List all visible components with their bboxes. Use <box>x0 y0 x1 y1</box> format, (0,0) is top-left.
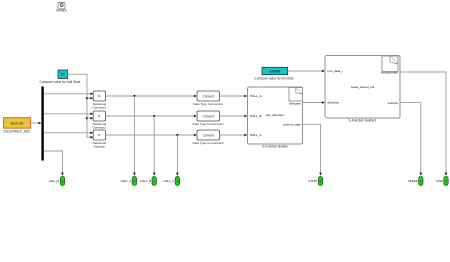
svg-text:velocity: velocity <box>388 101 399 105</box>
svg-text:Compare value for Hall State: Compare value for Hall State <box>40 80 81 84</box>
data type conversion1 block (middle) <box>193 111 225 126</box>
S-Function Builder1 (speed measurement) <box>325 56 400 123</box>
wire Data Type Conversion2 to S-Fcn HALL_C <box>220 134 248 137</box>
svg-text:Data Type Conversion: Data Type Conversion <box>193 102 223 106</box>
junction + branch down to HALL_B outport <box>153 115 156 176</box>
wire Data Type Conversion to S-Fcn HALL_A <box>220 95 248 98</box>
svg-text:min_data_i: min_data_i <box>328 69 343 73</box>
svg-text:0.0008: 0.0008 <box>269 70 280 74</box>
svg-text:current_state: current_state <box>283 123 301 127</box>
wire direction to S-Function Builder1 <box>303 101 325 104</box>
outport ADC_IN <box>49 177 65 186</box>
wire demux out1 to Relational Operator3 <box>44 93 93 96</box>
wire current_state down to START outport <box>303 124 322 175</box>
wire mesurement down to outport 7 <box>400 72 447 176</box>
S-Function Builder (get_direction) <box>248 87 303 148</box>
svg-text:S-Function Builder1: S-Function Builder1 <box>349 118 377 122</box>
svg-text:direction: direction <box>289 102 301 106</box>
outport SPEED <box>408 177 423 186</box>
demux (black bar) <box>41 87 43 161</box>
junction + stub to Relational Operator2 input 2 <box>86 117 93 120</box>
svg-text:Data Type Conversion2: Data Type Conversion2 <box>193 141 225 145</box>
outport HALL_A <box>121 177 137 186</box>
wire RO2 out to Data Type Conversion1 <box>106 115 197 118</box>
svg-text:HALL_C: HALL_C <box>163 179 174 183</box>
svg-text:S-Function Builder: S-Function Builder <box>262 144 289 148</box>
wire demux out4 down to ADC_IN outport <box>44 151 64 176</box>
junction + branch down to HALL_A outport <box>133 95 136 176</box>
relational operator RO3 block <box>93 91 107 110</box>
data type conversion block (top) <box>193 91 223 106</box>
outport RAW <box>436 177 448 186</box>
svg-text:ADC_IN: ADC_IN <box>49 179 60 183</box>
svg-text:SPEED: SPEED <box>408 179 418 183</box>
compare value for Hall State (cyan constant) <box>40 70 81 84</box>
junction + stub to Relational Operator3 input 2 <box>86 97 93 100</box>
wire Data Type Conversion1 to S-Fcn HALL_B <box>220 115 248 118</box>
wire velocity down to SPEED outport <box>400 103 422 176</box>
svg-text:Convert: Convert <box>203 133 214 137</box>
svg-text:meas_speed_rtls: meas_speed_rtls <box>351 85 375 89</box>
svg-text:Operator3: Operator3 <box>93 106 107 110</box>
wire demux out3 to Relational Operator <box>44 132 93 135</box>
svg-text:Convert: Convert <box>203 114 214 118</box>
svg-text:Operator2: Operator2 <box>93 126 107 130</box>
outport HALL_B <box>140 177 156 186</box>
compare value for min time (cyan constant) <box>254 67 293 80</box>
svg-text:HALL_A: HALL_A <box>250 94 262 98</box>
relational operator RO block <box>93 130 107 149</box>
svg-text:function: function <box>56 8 67 12</box>
wire demux out2 to Relational Operator2 <box>44 113 93 116</box>
Bad Link block DS1104MUX_ADC <box>4 118 32 134</box>
function block (top-left icon) <box>56 3 67 13</box>
svg-text:Data Type Conversion1: Data Type Conversion1 <box>193 122 225 126</box>
wire Hall State constant down the column x=87 <box>68 74 94 138</box>
svg-text:Operator: Operator <box>93 145 105 149</box>
relational operator RO2 block <box>93 111 107 130</box>
svg-text:direction: direction <box>328 101 340 105</box>
svg-text:get_direction: get_direction <box>266 113 284 117</box>
wire RO out to Data Type Conversion2 <box>106 134 197 137</box>
svg-text:START: START <box>308 179 317 183</box>
outport HALL_C <box>163 177 179 186</box>
wire Bad Link to Demux <box>31 122 42 125</box>
svg-text:mesurement: mesurement <box>381 70 398 74</box>
junction + branch down to HALL_C outport <box>176 134 179 176</box>
wire RO3 out to Data Type Conversion <box>106 95 197 98</box>
svg-text:Bad Link: Bad Link <box>11 121 24 125</box>
svg-text:DS1104MUX_ADC: DS1104MUX_ADC <box>4 130 32 134</box>
svg-text:Convert: Convert <box>203 94 214 98</box>
svg-text:HALL_B: HALL_B <box>250 114 262 118</box>
svg-text:55: 55 <box>61 73 65 77</box>
svg-text:HALL_A: HALL_A <box>121 179 132 183</box>
outport START <box>308 177 322 186</box>
data type conversion2 block (bottom) <box>193 130 225 145</box>
svg-text:RAW: RAW <box>436 179 443 183</box>
wire min time constant to S-Function Builder1 min_data_i <box>288 70 325 73</box>
svg-text:HALL_B: HALL_B <box>140 179 151 183</box>
svg-text:Compare value for min time: Compare value for min time <box>254 76 293 80</box>
svg-text:HALL_C: HALL_C <box>250 133 262 137</box>
